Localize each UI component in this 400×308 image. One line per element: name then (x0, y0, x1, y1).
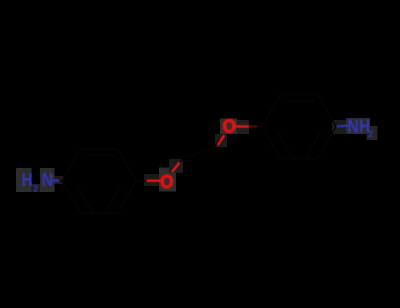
svg-text:N: N (42, 169, 53, 190)
svg-text:2: 2 (368, 129, 373, 139)
svg-text:N: N (347, 115, 358, 136)
svg-text:H: H (22, 169, 33, 190)
svg-text:O: O (160, 171, 173, 192)
svg-text:2: 2 (33, 184, 38, 194)
svg-text:O: O (223, 115, 236, 136)
